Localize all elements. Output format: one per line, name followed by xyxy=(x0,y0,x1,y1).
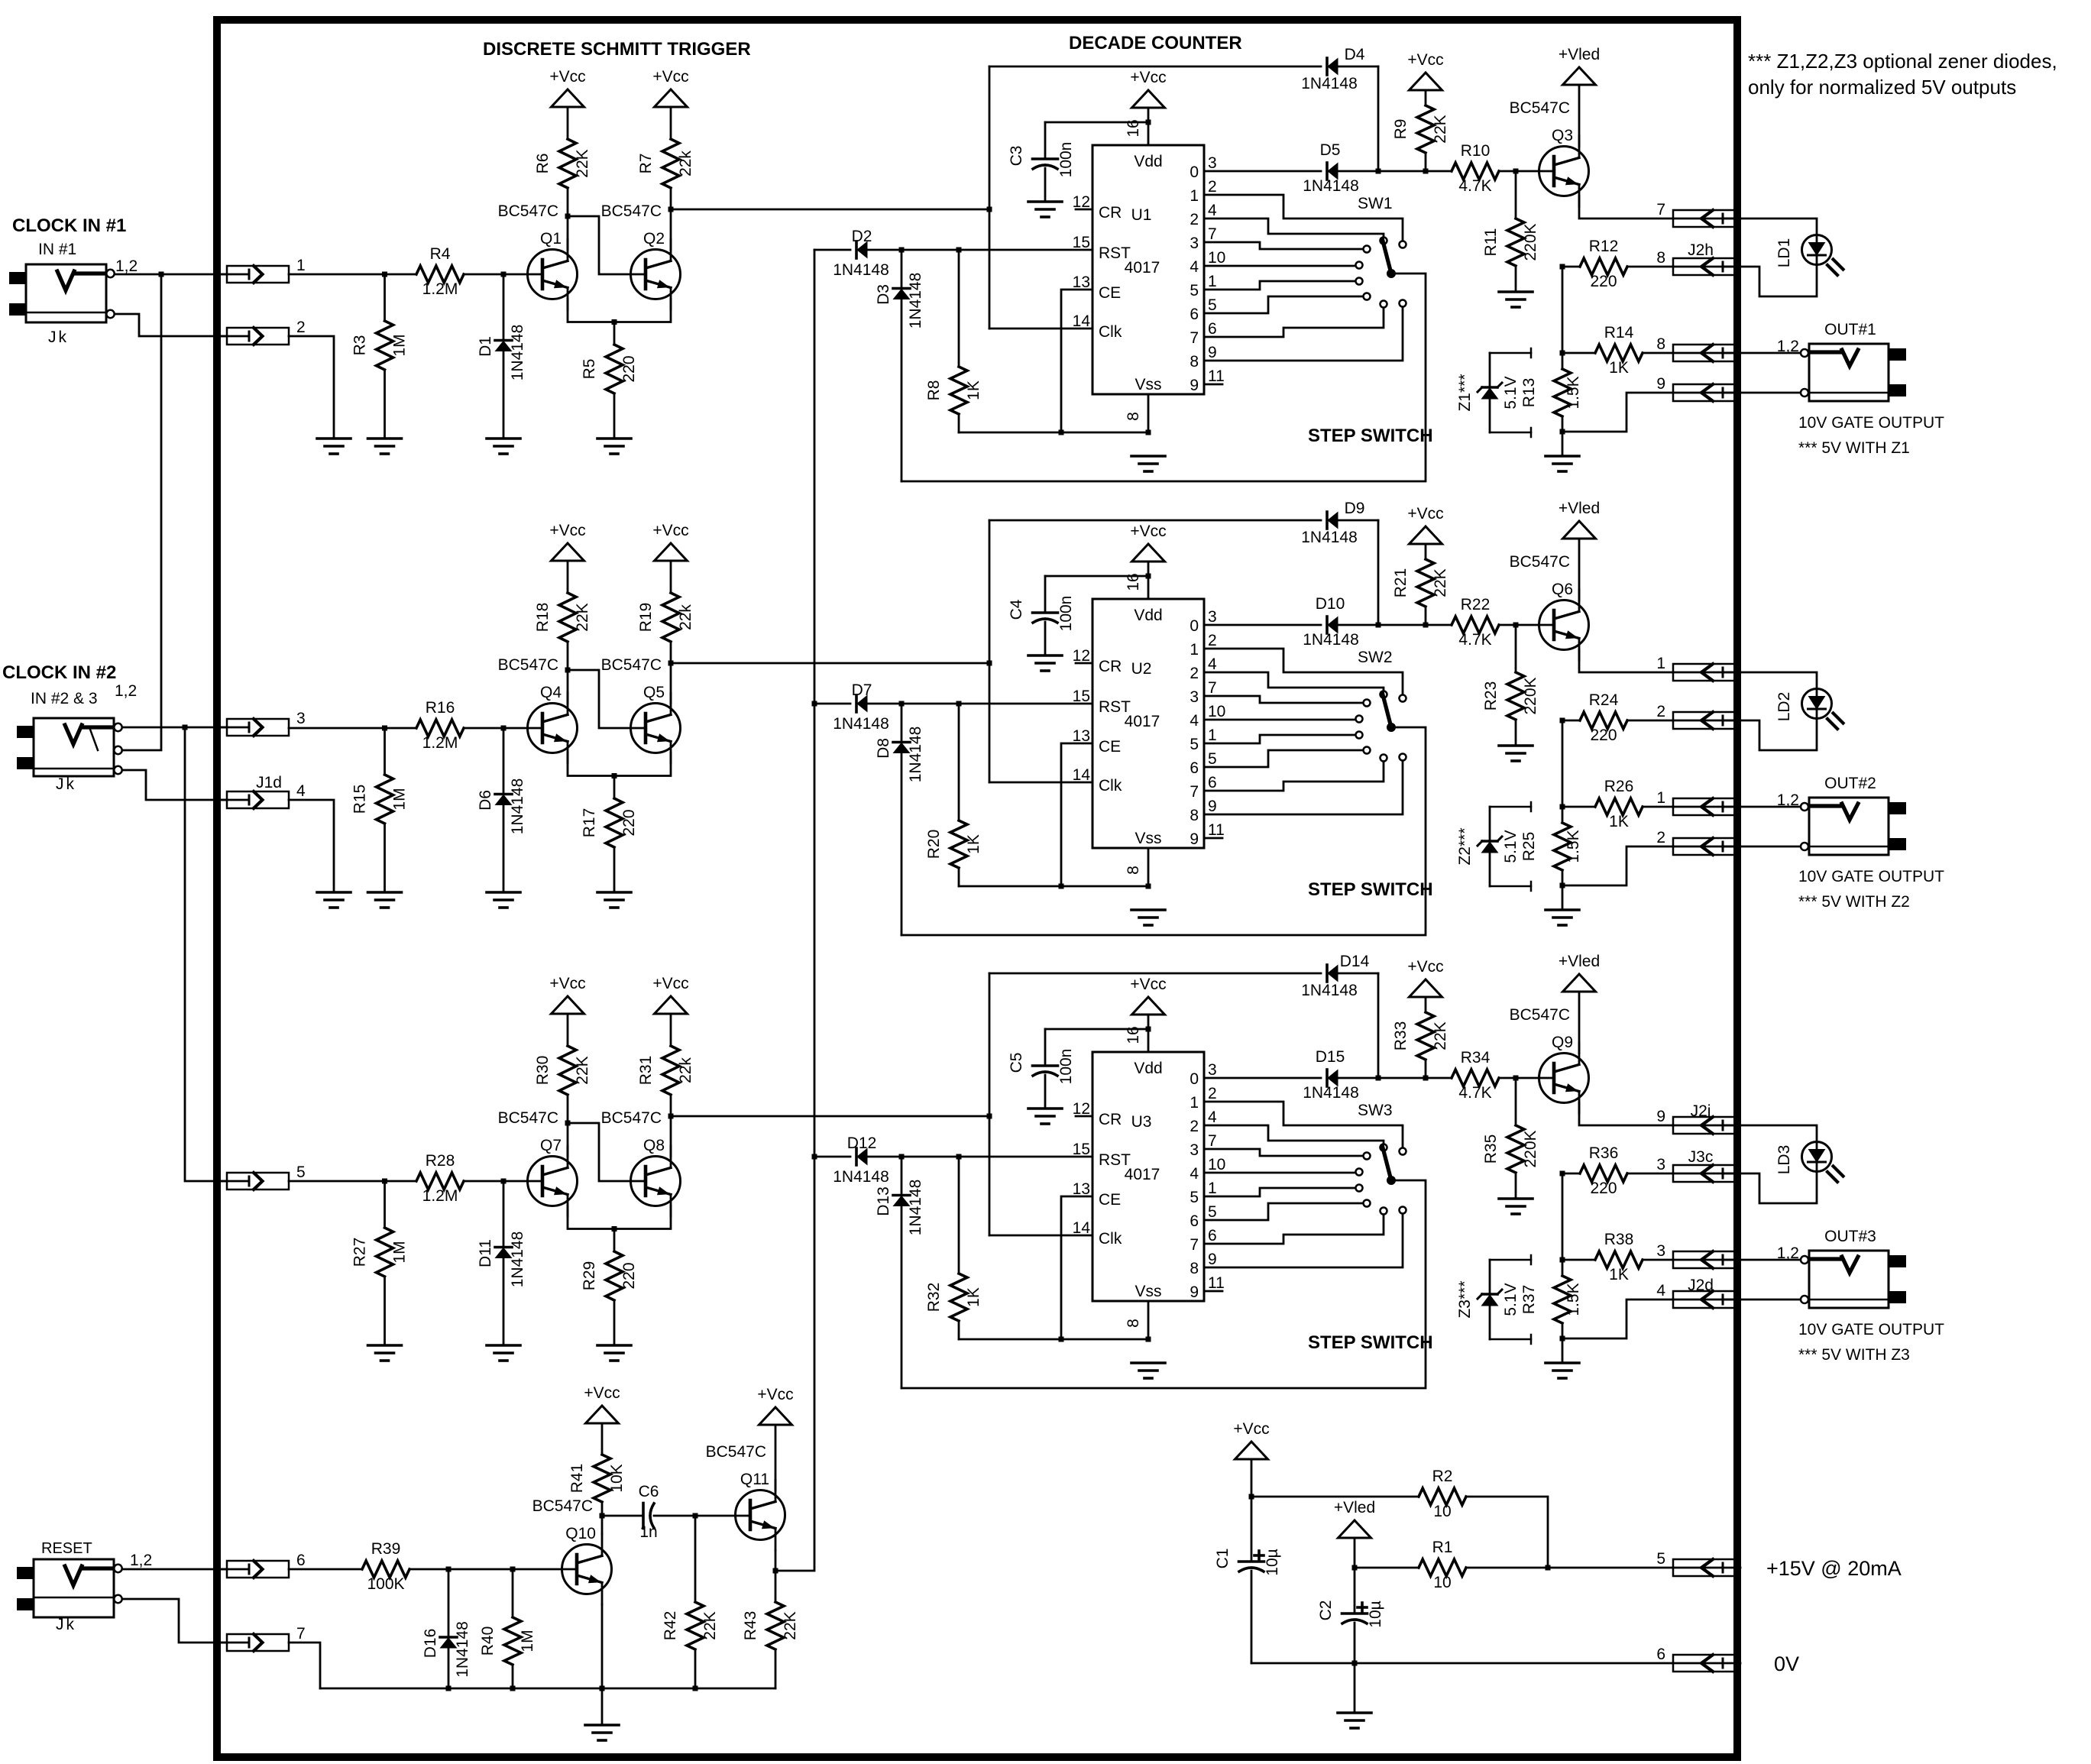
ground D11 xyxy=(487,1345,520,1361)
jack Jk CLOCK IN #2 xyxy=(17,718,122,776)
pin 13 CE U2 xyxy=(1073,727,1122,756)
resistor R22 4.7K xyxy=(1452,596,1499,649)
wire schmitt output xyxy=(668,207,992,212)
resistor R41 10K xyxy=(568,1423,626,1516)
svg-text:6: 6 xyxy=(1208,320,1217,338)
wire R28 to Q7 base xyxy=(464,1179,542,1184)
svg-text:R3: R3 xyxy=(351,335,369,356)
pin 9 output 8 U2 xyxy=(1190,798,1216,824)
svg-text:4: 4 xyxy=(296,782,306,800)
diode D5 1N4148 xyxy=(1303,141,1359,195)
svg-text:7: 7 xyxy=(1208,679,1217,697)
pin 4 output 2 U2 xyxy=(1190,655,1217,682)
svg-text:Vss: Vss xyxy=(1135,1283,1161,1300)
label STEP SWITCH xyxy=(1308,426,1433,446)
svg-text:IN #1: IN #1 xyxy=(38,241,76,258)
ground D1 xyxy=(487,439,520,454)
zener Z1 5.1V optional xyxy=(1456,353,1520,432)
svg-text:1: 1 xyxy=(1190,1094,1199,1112)
wire cross-coupling xyxy=(565,1121,646,1182)
svg-text:5: 5 xyxy=(1190,736,1199,753)
svg-text:R25: R25 xyxy=(1520,832,1538,862)
pin 5 output 6 U2 xyxy=(1190,750,1216,777)
svg-text:15: 15 xyxy=(1073,234,1090,251)
svg-text:1N4148: 1N4148 xyxy=(509,1232,526,1288)
jack Jk RESET xyxy=(17,1559,122,1617)
wire Q6 emitter to tag xyxy=(1579,650,1673,673)
svg-text:1N4148: 1N4148 xyxy=(833,261,889,279)
svg-text:R34: R34 xyxy=(1461,1049,1491,1066)
svg-text:Vdd: Vdd xyxy=(1134,153,1162,170)
pin 4 output 2 U3 xyxy=(1190,1109,1217,1135)
svg-text:22K: 22K xyxy=(574,1056,591,1084)
power +Vcc R19 xyxy=(652,522,688,561)
svg-text:4.7K: 4.7K xyxy=(1458,1084,1491,1102)
title CLOCK IN #1 xyxy=(12,215,126,236)
svg-text:5: 5 xyxy=(1208,1203,1217,1221)
resistor R21 22K xyxy=(1392,544,1449,625)
ground tag 2 xyxy=(317,439,351,454)
wire tag to jack tip xyxy=(1724,352,1800,354)
svg-text:1K: 1K xyxy=(965,1287,982,1307)
wire Q9 collector xyxy=(1578,992,1581,1054)
wire R2 to +15V line xyxy=(1466,1497,1551,1571)
wire output 6 to SW3 xyxy=(1204,1203,1364,1220)
resistor R29 220 xyxy=(581,1229,638,1346)
svg-text:R40: R40 xyxy=(479,1626,497,1656)
svg-text:1M: 1M xyxy=(391,788,409,810)
resistor R26 1K xyxy=(1562,778,1673,830)
label 1,2 jack xyxy=(1777,1245,1799,1262)
svg-text:LD2: LD2 xyxy=(1775,692,1793,722)
wire +Vled to node xyxy=(1352,1538,1358,1571)
svg-text:3: 3 xyxy=(1190,688,1199,706)
pin 16 Vdd U2 xyxy=(1125,562,1148,599)
note zener diodes line 2 xyxy=(1748,76,2016,99)
svg-text:R30: R30 xyxy=(534,1056,552,1086)
wire R12 node vertical xyxy=(1560,718,1565,810)
wire clk to D9 xyxy=(989,519,1321,522)
connector tag 6 reset xyxy=(220,1552,306,1578)
wire D12 to RST pin xyxy=(866,1154,1092,1160)
svg-text:+Vcc: +Vcc xyxy=(1407,505,1443,523)
svg-text:BC547C: BC547C xyxy=(498,656,558,674)
ground R23 xyxy=(1499,746,1533,761)
power +Vcc R9 xyxy=(1407,51,1443,90)
pin 9 output 8 U1 xyxy=(1190,344,1216,371)
svg-text:1,2: 1,2 xyxy=(115,257,138,275)
svg-text:22k: 22k xyxy=(677,1057,694,1083)
svg-text:8: 8 xyxy=(1190,1260,1199,1277)
svg-text:5: 5 xyxy=(1190,282,1199,299)
wire node to R2 xyxy=(1251,1496,1419,1498)
resistor R10 4.7K xyxy=(1452,142,1499,195)
svg-text:CE: CE xyxy=(1099,1191,1121,1209)
ground R11 xyxy=(1499,292,1533,307)
diode D14 1N4148 xyxy=(1301,953,1369,999)
pin 6 output 7 U3 xyxy=(1190,1227,1216,1254)
svg-text:9: 9 xyxy=(1208,798,1217,815)
svg-text:Z3***: Z3*** xyxy=(1456,1280,1474,1318)
svg-text:0: 0 xyxy=(1190,617,1199,635)
svg-text:8: 8 xyxy=(1125,412,1142,421)
wire output 6 to SW2 xyxy=(1204,750,1364,767)
label 1,2 reset xyxy=(130,1552,152,1569)
title DISCRETE SCHMITT TRIGGER xyxy=(483,39,751,60)
svg-text:1N4148: 1N4148 xyxy=(907,727,924,783)
ground R3 xyxy=(368,439,402,454)
svg-text:2: 2 xyxy=(1190,1118,1199,1135)
svg-text:15: 15 xyxy=(1073,1141,1090,1158)
svg-text:Vdd: Vdd xyxy=(1134,607,1162,624)
pin 2 output 1 U1 xyxy=(1190,178,1216,205)
svg-text:1.2M: 1.2M xyxy=(422,280,458,298)
svg-text:SW1: SW1 xyxy=(1358,195,1393,212)
resistor R2 10 xyxy=(1419,1468,1466,1520)
power +Vled Q3 xyxy=(1559,46,1600,85)
resistor R39 100K xyxy=(362,1540,409,1593)
pin 16 Vdd U1 xyxy=(1125,108,1148,145)
svg-text:+Vled: +Vled xyxy=(1559,953,1600,970)
transistor Q1 BC547C xyxy=(498,202,578,309)
wire R12 node vertical xyxy=(1560,1171,1565,1263)
svg-text:1.2M: 1.2M xyxy=(422,1187,458,1205)
connector tag 5 +15V xyxy=(1656,1550,1740,1576)
svg-text:Q2: Q2 xyxy=(643,230,665,248)
svg-text:1N4148: 1N4148 xyxy=(907,1180,924,1236)
resistor R42 22K xyxy=(662,1516,719,1688)
resistor R20 1K xyxy=(925,704,982,886)
wire +Vcc to node xyxy=(1249,1459,1254,1500)
svg-text:R8: R8 xyxy=(925,380,943,401)
transistor Q11 BC547C xyxy=(706,1443,785,1550)
svg-text:D11: D11 xyxy=(477,1239,494,1267)
wire Q1 emitter xyxy=(568,299,614,322)
svg-text:Clk: Clk xyxy=(1099,1230,1122,1248)
wire Q11 emitter node xyxy=(773,1551,778,1603)
pin 3 output 0 U3 xyxy=(1190,1061,1216,1088)
svg-text:OUT#2: OUT#2 xyxy=(1824,775,1876,792)
wire LD2 cathode return xyxy=(1724,719,1817,751)
transistor Q6 BC547C xyxy=(1510,553,1589,660)
wire reset bus xyxy=(775,250,817,1571)
wire cross-coupling xyxy=(565,214,646,275)
label STEP SWITCH xyxy=(1308,879,1433,900)
resistor R16 1.2M xyxy=(416,699,464,752)
svg-text:10: 10 xyxy=(1208,1156,1225,1173)
wire schmitt output xyxy=(668,1114,992,1119)
wire R4 to Q1 base xyxy=(464,272,542,277)
svg-text:1,2: 1,2 xyxy=(1777,338,1799,355)
svg-text:Q11: Q11 xyxy=(740,1471,769,1488)
svg-text:R36: R36 xyxy=(1589,1144,1619,1162)
label R37 xyxy=(1520,1285,1538,1315)
connector tag 9 LED drive xyxy=(1656,1108,1740,1134)
svg-text:R16: R16 xyxy=(426,699,455,717)
ground Q10 xyxy=(585,1688,619,1740)
svg-text:220: 220 xyxy=(620,355,638,382)
svg-text:220K: 220K xyxy=(1522,677,1539,714)
wire tag 6 to R39 xyxy=(289,1568,362,1571)
label 10V GATE OUTPUT xyxy=(1798,414,1944,432)
ground R35 xyxy=(1499,1199,1533,1214)
resistor R3 1M xyxy=(351,274,409,439)
bracket optional Z3 xyxy=(1490,1255,1531,1344)
diode D1 1N4148 xyxy=(477,274,526,439)
svg-text:IN #2 & 3: IN #2 & 3 xyxy=(31,690,98,707)
svg-text:J2i: J2i xyxy=(1691,1102,1711,1120)
wire CE to ground line xyxy=(1061,1196,1092,1339)
svg-text:+Vcc: +Vcc xyxy=(1233,1420,1269,1438)
label R13 xyxy=(1520,378,1538,408)
pin 3 output 0 U1 xyxy=(1190,154,1216,181)
wire tag 7 to rail xyxy=(289,1643,320,1688)
wire R22 to Q6 base xyxy=(1499,623,1554,628)
svg-text:4.7K: 4.7K xyxy=(1458,177,1491,195)
pin 15 RST U1 xyxy=(1073,234,1131,262)
connector tag 8 gate out xyxy=(1656,335,1740,361)
wire output 1 to SW3 xyxy=(1204,1102,1403,1148)
wire tag 4 to ground xyxy=(289,800,334,892)
svg-text:STEP SWITCH: STEP SWITCH xyxy=(1308,1332,1433,1353)
resistor R37 1.5K xyxy=(1554,1260,1582,1342)
svg-text:8: 8 xyxy=(1656,249,1665,267)
IC U1 4017 xyxy=(1092,145,1204,394)
svg-text:BC547C: BC547C xyxy=(601,656,662,674)
svg-text:1M: 1M xyxy=(519,1630,536,1652)
wire output 0 to D10 xyxy=(1204,624,1321,626)
wire CE to ground line xyxy=(1061,743,1092,886)
wire R12 node vertical xyxy=(1560,264,1565,356)
transistor Q2 BC547C xyxy=(601,202,681,309)
resistor R31 22k xyxy=(637,1014,694,1157)
wire output 2 to SW2 xyxy=(1204,672,1384,691)
wire tag to LD1 xyxy=(1724,218,1817,235)
wire output 4 to SW1 xyxy=(1204,265,1356,267)
svg-text:R23: R23 xyxy=(1482,681,1500,711)
wire schmitt output xyxy=(668,661,992,666)
svg-text:22K: 22K xyxy=(1432,115,1449,143)
svg-text:4: 4 xyxy=(1208,202,1217,219)
pin 5 output 6 U3 xyxy=(1190,1203,1216,1230)
svg-text:1: 1 xyxy=(1190,187,1199,205)
svg-text:15: 15 xyxy=(1073,688,1090,705)
wire CE to ground line xyxy=(1061,290,1092,432)
svg-text:+Vcc: +Vcc xyxy=(652,975,688,992)
LED LD2 xyxy=(1775,689,1843,730)
svg-text:STEP SWITCH: STEP SWITCH xyxy=(1308,426,1433,446)
pin 12 CR U1 xyxy=(1073,193,1122,222)
svg-text:R29: R29 xyxy=(581,1261,598,1291)
ground tag 4 xyxy=(317,892,351,908)
power +Vcc Q11 xyxy=(757,1386,793,1425)
svg-text:6: 6 xyxy=(1656,1646,1665,1663)
svg-text:1K: 1K xyxy=(1609,359,1629,377)
svg-text:R17: R17 xyxy=(581,808,598,838)
ground R5 xyxy=(597,439,631,454)
svg-text:OUT#1: OUT#1 xyxy=(1824,321,1876,338)
svg-text:R21: R21 xyxy=(1392,568,1410,598)
svg-text:4: 4 xyxy=(1656,1282,1665,1300)
svg-text:1.2M: 1.2M xyxy=(422,734,458,752)
wire Q10 emitter xyxy=(601,1605,604,1689)
wire output 2 to SW3 xyxy=(1204,1125,1384,1144)
title DECADE COUNTER xyxy=(1069,33,1242,53)
svg-text:R1: R1 xyxy=(1432,1539,1453,1556)
wire tag to LD2 xyxy=(1724,672,1817,688)
svg-text:R41: R41 xyxy=(568,1464,586,1494)
wire output 5 to SW1 xyxy=(1204,281,1356,290)
svg-text:Q10: Q10 xyxy=(565,1525,596,1542)
svg-text:R2: R2 xyxy=(1432,1468,1453,1485)
wire R8-CE-Vss line xyxy=(959,884,1151,889)
svg-text:8: 8 xyxy=(1190,807,1199,824)
wire tag 2 to ground xyxy=(289,336,334,439)
svg-text:RST: RST xyxy=(1099,698,1131,716)
svg-text:D6: D6 xyxy=(477,790,494,811)
svg-text:+Vcc: +Vcc xyxy=(1130,69,1166,86)
svg-text:10: 10 xyxy=(1208,703,1225,720)
svg-text:7: 7 xyxy=(1656,201,1665,218)
ground R17 xyxy=(597,892,631,908)
jack OUT#2 xyxy=(1801,798,1906,855)
svg-text:10µ: 10µ xyxy=(1264,1549,1281,1575)
label 1,2 jack2 xyxy=(115,682,137,700)
border frame xyxy=(217,20,1737,1757)
label OUT#3 xyxy=(1824,1228,1876,1245)
wire C3 to Vdd xyxy=(1045,120,1151,125)
wire Clk pin xyxy=(989,328,1092,330)
power +Vcc U2 Vdd xyxy=(1130,523,1166,562)
diode D12 1N4148 xyxy=(833,1134,889,1186)
svg-text:4: 4 xyxy=(1190,1165,1199,1183)
resistor R33 22K xyxy=(1392,997,1449,1078)
svg-text:1: 1 xyxy=(1208,273,1217,290)
svg-text:10K: 10K xyxy=(608,1464,626,1492)
svg-text:BC547C: BC547C xyxy=(601,202,662,220)
svg-text:1,2: 1,2 xyxy=(130,1552,152,1569)
svg-text:2: 2 xyxy=(1656,829,1665,846)
wire output 8 to SW2 xyxy=(1204,761,1403,815)
wire C4 to Vdd xyxy=(1045,574,1151,579)
label 0V xyxy=(1774,1652,1799,1675)
power +Vcc U3 Vdd xyxy=(1130,976,1166,1015)
wire tag to jack tip xyxy=(1724,806,1800,808)
power +Vled Q6 xyxy=(1559,500,1600,539)
label 1,2 jack1 xyxy=(115,257,138,275)
bracket optional Z2 xyxy=(1490,802,1531,891)
svg-text:R35: R35 xyxy=(1482,1134,1500,1164)
capacitor C2 10u xyxy=(1317,1568,1384,1663)
svg-text:U2: U2 xyxy=(1131,660,1152,678)
svg-text:4.7K: 4.7K xyxy=(1458,631,1491,649)
svg-text:9: 9 xyxy=(1656,375,1665,393)
resistor R32 1K xyxy=(925,1157,982,1339)
connector tag 4 clock 2 sleeve xyxy=(220,782,306,808)
svg-text:+Vcc: +Vcc xyxy=(584,1384,620,1402)
pin 14 Clk U1 xyxy=(1073,312,1122,341)
power +Vled supply xyxy=(1334,1499,1375,1538)
wire Q7 emitter xyxy=(568,1206,614,1229)
svg-text:Clk: Clk xyxy=(1099,323,1122,341)
pin 6 output 7 U2 xyxy=(1190,774,1216,801)
svg-text:22k: 22k xyxy=(677,604,694,630)
svg-text:1N4148: 1N4148 xyxy=(1303,631,1359,649)
power +Vcc R31 xyxy=(652,975,688,1014)
svg-text:BC547C: BC547C xyxy=(601,1109,662,1127)
svg-text:1,2: 1,2 xyxy=(1777,1245,1799,1262)
IC U2 4017 xyxy=(1092,599,1204,848)
diode D16 1N4148 xyxy=(422,1569,471,1688)
svg-text:1N4148: 1N4148 xyxy=(1301,529,1358,546)
svg-text:CLOCK IN #2: CLOCK IN #2 xyxy=(2,662,116,683)
svg-text:R20: R20 xyxy=(925,830,943,859)
resistor R7 22k xyxy=(637,107,694,250)
svg-text:4: 4 xyxy=(1208,1109,1217,1126)
svg-text:14: 14 xyxy=(1073,1219,1091,1237)
wire output 8 to SW3 xyxy=(1204,1214,1403,1268)
wire switch common return xyxy=(901,1180,1426,1388)
label R25 xyxy=(1520,832,1538,862)
pin 12 CR U2 xyxy=(1073,647,1122,675)
svg-text:+Vcc: +Vcc xyxy=(549,975,585,992)
svg-text:13: 13 xyxy=(1073,1180,1090,1198)
connector tag 2 LED return xyxy=(1656,703,1740,729)
title CLOCK IN #2 xyxy=(2,662,116,683)
wire output 1 to SW2 xyxy=(1204,649,1403,695)
label OUT#2 xyxy=(1824,775,1876,792)
power +Vcc R33 xyxy=(1407,958,1443,997)
svg-text:R42: R42 xyxy=(662,1611,679,1641)
LED LD3 xyxy=(1775,1142,1843,1183)
svg-text:C1: C1 xyxy=(1214,1549,1232,1569)
label 1,2 jack xyxy=(1777,791,1799,809)
svg-text:5.1V: 5.1V xyxy=(1502,1283,1520,1316)
pin 15 RST U2 xyxy=(1073,688,1131,716)
svg-text:1N4148: 1N4148 xyxy=(1301,982,1358,999)
wire D10 to R22 xyxy=(1337,623,1452,628)
svg-text:BC547C: BC547C xyxy=(1510,99,1570,117)
svg-text:Q6: Q6 xyxy=(1552,581,1573,598)
svg-text:RST: RST xyxy=(1099,1151,1131,1169)
resistor R27 1M xyxy=(351,1181,409,1345)
wire reset sleeve to tag 7 xyxy=(122,1599,227,1643)
wire tag to LD3 xyxy=(1724,1125,1817,1141)
wire switch common return xyxy=(901,727,1426,935)
svg-text:R11: R11 xyxy=(1482,228,1500,257)
diode D6 1N4148 xyxy=(477,728,526,892)
wire clk bus vertical xyxy=(989,66,991,329)
svg-text:1N4148: 1N4148 xyxy=(509,778,526,835)
wire jack2 sleeve to tag 4 xyxy=(122,770,227,800)
diode D4 1N4148 xyxy=(1301,46,1365,92)
svg-text:220: 220 xyxy=(1590,273,1617,290)
label J1d xyxy=(256,774,282,791)
label +15V @ 20mA xyxy=(1766,1557,1902,1580)
wire R8-CE-Vss line xyxy=(959,430,1151,435)
ground R29 xyxy=(597,1345,631,1361)
resistor R13 1.5K xyxy=(1554,353,1582,435)
svg-text:D8: D8 xyxy=(875,738,892,759)
svg-text:D4: D4 xyxy=(1345,46,1365,63)
resistor R9 22K xyxy=(1392,90,1449,171)
svg-text:1K: 1K xyxy=(965,380,982,400)
title RESET xyxy=(41,1540,92,1557)
svg-text:*** 5V WITH Z3: *** 5V WITH Z3 xyxy=(1798,1346,1910,1364)
wire normal jack1 to jack2 switch xyxy=(122,274,161,750)
svg-text:D14: D14 xyxy=(1340,953,1370,970)
resistor R1 10 xyxy=(1419,1539,1466,1591)
